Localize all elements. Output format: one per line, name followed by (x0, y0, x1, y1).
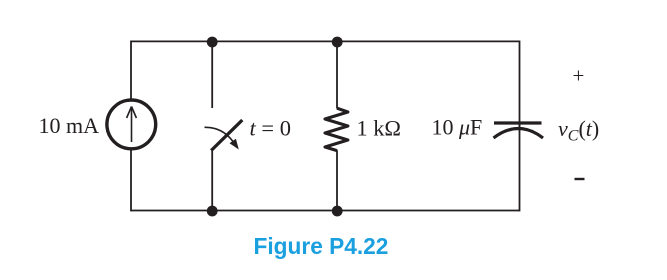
node junction dot top-left (207, 37, 218, 48)
svg-text:+: + (573, 64, 585, 88)
switch S1 blade (211, 120, 242, 151)
wire top rail (131, 40, 520, 42)
switch arrowhead (230, 139, 239, 150)
label minus (575, 178, 585, 180)
current source I1 circle (107, 100, 156, 149)
capacitor C1 top plate (494, 121, 542, 124)
svg-text:vC(t): vC(t) (558, 116, 599, 145)
svg-text:t = 0: t = 0 (250, 116, 291, 141)
wire switch branch upper (211, 41, 213, 108)
node junction dot top-right (332, 37, 343, 48)
svg-text:10 mA: 10 mA (39, 113, 100, 138)
svg-text:10 μF: 10 μF (432, 115, 483, 140)
wire left branch upper (130, 41, 132, 100)
wire resistor branch upper (336, 41, 338, 108)
node junction dot bottom-right (332, 206, 343, 217)
resistor R1 zigzag (325, 108, 348, 150)
svg-text:1 kΩ: 1 kΩ (357, 116, 401, 141)
node junction dot bottom-left (207, 206, 218, 217)
svg-text:Figure P4.22: Figure P4.22 (254, 233, 389, 259)
wire bottom rail (131, 210, 520, 212)
wire right branch upper (519, 41, 521, 132)
wire left branch lower (130, 150, 132, 211)
current source arrow (127, 107, 137, 143)
wire right branch lower (519, 124, 521, 211)
switch actuation arc (205, 127, 234, 141)
wire resistor branch lower (336, 150, 338, 211)
capacitor C1 curved plate (494, 129, 544, 139)
wire switch branch lower (211, 150, 213, 211)
